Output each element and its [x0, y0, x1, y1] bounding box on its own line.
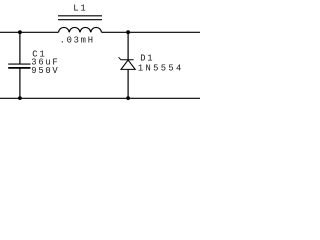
svg-text:L1: L1: [73, 4, 87, 14]
svg-text:D1: D1: [140, 53, 154, 63]
svg-text:950V: 950V: [31, 66, 59, 76]
junction bottom left: [18, 96, 22, 100]
capacitor C1 top plate: [8, 63, 30, 65]
wire capacitor branch upper: [19, 32, 21, 64]
junction top left: [18, 30, 22, 34]
junction top right: [126, 30, 130, 34]
wire capacitor branch lower: [19, 68, 21, 98]
wire top rail right segment: [102, 31, 201, 33]
wire diode branch upper: [127, 32, 129, 60]
inductor L1 coil: [59, 27, 102, 32]
inductor L1 core line upper: [58, 15, 102, 17]
diode D1 cathode bar with bent left end: [119, 57, 134, 60]
wire diode branch lower: [127, 69, 129, 98]
capacitor C1 bottom plate: [8, 67, 30, 69]
junction bottom right: [126, 96, 130, 100]
diode D1 triangle: [121, 60, 135, 69]
svg-text:1N5554: 1N5554: [138, 64, 184, 74]
svg-text:.03mH: .03mH: [60, 36, 95, 46]
wire bottom rail: [0, 97, 200, 99]
wire top rail left segment: [0, 31, 59, 33]
inductor L1 core line lower: [58, 19, 102, 21]
